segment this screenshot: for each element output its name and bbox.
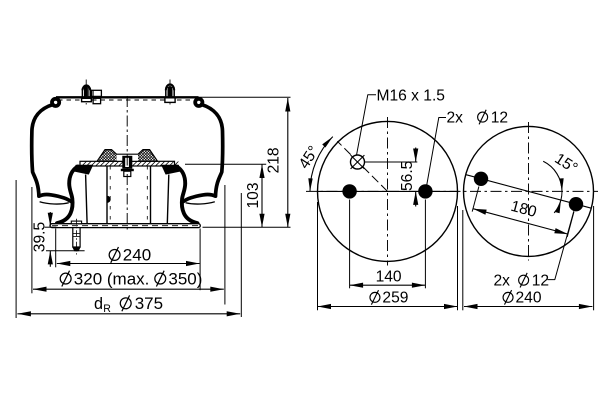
svg-text:259: 259 <box>382 290 408 307</box>
svg-text:12: 12 <box>532 272 549 289</box>
svg-text:R: R <box>103 303 111 315</box>
svg-text:56.5: 56.5 <box>399 160 416 191</box>
svg-text:140: 140 <box>376 269 402 286</box>
svg-text:240: 240 <box>123 246 151 265</box>
svg-text:103: 103 <box>245 182 262 208</box>
svg-text:M16 x 1.5: M16 x 1.5 <box>377 87 446 104</box>
svg-text:320 (max.: 320 (max. <box>74 269 154 288</box>
svg-text:39.5: 39.5 <box>31 222 48 253</box>
svg-text:2x: 2x <box>494 272 511 289</box>
svg-text:d: d <box>94 295 103 313</box>
svg-text:375: 375 <box>135 294 163 313</box>
svg-text:2x: 2x <box>447 109 464 126</box>
svg-text:350): 350) <box>168 269 202 288</box>
svg-text:240: 240 <box>516 290 542 307</box>
svg-text:12: 12 <box>491 109 508 126</box>
svg-text:218: 218 <box>265 147 282 173</box>
